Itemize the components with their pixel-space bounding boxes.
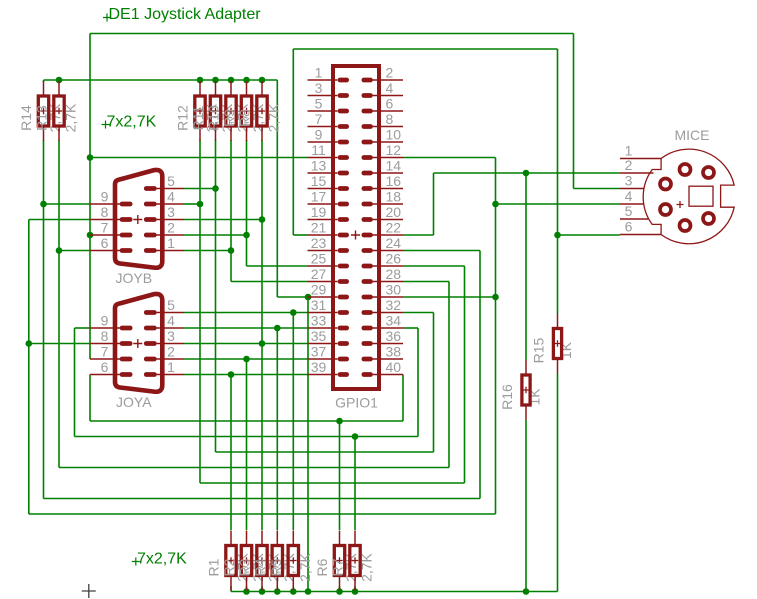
svg-text:R8: R8 xyxy=(237,109,253,127)
connector GPIO1 xyxy=(308,66,404,389)
junction JOYB4 xyxy=(197,201,204,208)
connector JOYA pin numbers left xyxy=(101,313,109,376)
svg-text:R9: R9 xyxy=(221,109,237,127)
junction rail R2 xyxy=(243,588,250,595)
junction R16 top xyxy=(523,170,530,177)
wire bus line 2 (GPIO34) xyxy=(75,436,419,438)
resistor R6 xyxy=(334,531,344,591)
wire GPIO21 stub xyxy=(293,234,307,236)
svg-text:2: 2 xyxy=(625,157,633,173)
svg-text:10: 10 xyxy=(386,127,402,143)
svg-text:JOYB: JOYB xyxy=(116,270,153,286)
wire R1 bottom lead xyxy=(230,586,232,592)
resistor R9 xyxy=(241,81,251,141)
wire column R9 lower xyxy=(215,140,217,452)
svg-text:4: 4 xyxy=(625,188,633,204)
svg-text:5: 5 xyxy=(625,203,633,219)
svg-text:32: 32 xyxy=(386,297,402,313)
svg-text:20: 20 xyxy=(386,204,402,220)
svg-text:2: 2 xyxy=(386,65,394,81)
svg-text:DE1 Joystick Adapter: DE1 Joystick Adapter xyxy=(109,6,262,23)
junction GPIO29 xyxy=(305,294,312,301)
junction R13 top xyxy=(56,77,63,84)
wire R4 bottom lead xyxy=(276,586,278,592)
svg-text:27: 27 xyxy=(311,266,327,282)
svg-text:2: 2 xyxy=(167,344,175,360)
svg-text:16: 16 xyxy=(386,173,402,189)
connector JOYA pin numbers right xyxy=(167,297,175,375)
wire JOYA1 to GPIO39 xyxy=(184,374,308,376)
resistor R5 xyxy=(288,531,298,591)
wire bus line 6 (GPIO24) xyxy=(44,498,481,500)
wire bus line 4 (GPIO28) xyxy=(59,467,449,469)
resistor R14 xyxy=(38,81,48,141)
resistor R11 xyxy=(210,81,220,141)
wire R5 bottom lead xyxy=(292,586,294,592)
resistor R3 xyxy=(257,531,267,591)
wire column x464 (GPIO26) xyxy=(464,266,466,483)
wire column x433 lower (GPIO32) xyxy=(433,313,435,453)
svg-text:24: 24 xyxy=(386,235,402,251)
svg-text:3: 3 xyxy=(625,173,633,189)
wire column R15 upper xyxy=(557,49,559,314)
connector JOYB xyxy=(90,170,184,268)
wire JOYA3 to GPIO35 xyxy=(184,343,308,345)
wire GPIO34 row xyxy=(403,327,418,329)
junction rail R3 xyxy=(259,588,266,595)
svg-text:5: 5 xyxy=(167,297,175,313)
svg-text:R10: R10 xyxy=(206,105,222,131)
wire R3 bottom lead xyxy=(261,586,263,592)
wire pull-up top rail xyxy=(44,79,278,81)
svg-text:R4: R4 xyxy=(252,558,268,576)
svg-text:4: 4 xyxy=(167,313,175,329)
junction JOYA5/GPIO31 xyxy=(290,309,297,316)
svg-text:11: 11 xyxy=(311,142,326,158)
resistor R2 xyxy=(241,531,251,591)
wire GPIO22 to MICE2 xyxy=(434,172,621,174)
junction rail R4 xyxy=(274,588,281,595)
svg-text:3: 3 xyxy=(167,328,175,344)
svg-text:8: 8 xyxy=(101,328,109,344)
wire GPIO22 stub xyxy=(403,234,434,236)
svg-text:7x2,7K: 7x2,7K xyxy=(107,114,157,131)
wire MICE3 stub xyxy=(574,188,621,190)
resistor R4 xyxy=(272,531,282,591)
wire bus line 7 (GPIO12/30) xyxy=(29,513,496,515)
svg-text:19: 19 xyxy=(311,204,327,220)
wire column x433 upper (GPIO22) xyxy=(433,173,435,235)
connector JOYB pin numbers right xyxy=(167,173,175,251)
wire column R13 lower xyxy=(58,140,60,468)
wire column R2 top lead xyxy=(246,359,248,530)
wire column x403 (GPIO40) xyxy=(402,375,404,422)
wire column x293 upper xyxy=(292,49,294,235)
wire GPIO24 row xyxy=(403,250,480,252)
wire JOYA8 row xyxy=(29,343,90,345)
svg-text:9: 9 xyxy=(101,313,109,329)
resistor R13 xyxy=(54,81,64,141)
junction MICE6 xyxy=(554,232,561,239)
wire left column x90 lower xyxy=(89,375,91,422)
wire JOYB4 stub xyxy=(184,203,200,205)
wire column x573 (MICE3) xyxy=(573,34,575,189)
svg-text:2: 2 xyxy=(167,220,175,236)
junction R7 bus2 xyxy=(352,433,359,440)
svg-text:6: 6 xyxy=(625,219,633,235)
junction GPIO30 xyxy=(492,294,499,301)
junction JOYB9 xyxy=(40,201,47,208)
wire bottom common rail xyxy=(231,591,558,593)
svg-text:22: 22 xyxy=(386,220,402,236)
resistor R7 xyxy=(350,531,360,591)
connector MICE xyxy=(620,149,734,244)
wire GPIO32 row xyxy=(403,312,434,314)
wire GPIO29 jog xyxy=(277,296,308,298)
wire column R12 lower xyxy=(261,140,263,530)
resistor R15 xyxy=(553,314,561,374)
junction JOYB7 xyxy=(87,232,94,239)
svg-text:5: 5 xyxy=(167,173,175,189)
svg-text:R3: R3 xyxy=(237,558,253,576)
wire JOYA9 row xyxy=(75,327,91,329)
svg-text:6: 6 xyxy=(101,235,109,251)
svg-text:35: 35 xyxy=(311,328,327,344)
junction JOYB1 xyxy=(228,247,235,254)
svg-text:38: 38 xyxy=(386,344,402,360)
svg-text:14: 14 xyxy=(386,158,402,174)
wire column x495 (GPIO12/30) xyxy=(495,158,497,515)
junction JOYA3/GPIO35 xyxy=(259,340,266,347)
svg-text:5: 5 xyxy=(315,96,323,112)
wire left column x90 upper xyxy=(89,34,91,360)
svg-text:R6: R6 xyxy=(314,558,330,576)
svg-text:36: 36 xyxy=(386,328,402,344)
svg-text:R16: R16 xyxy=(499,384,515,410)
wire left column x74.5 xyxy=(74,328,76,437)
svg-text:40: 40 xyxy=(386,359,402,375)
svg-text:4: 4 xyxy=(167,189,175,205)
junction rail R6 xyxy=(336,588,343,595)
wire MICE4 stub xyxy=(496,203,621,205)
connector GPIO1 pin numbers right xyxy=(386,65,402,376)
svg-text:28: 28 xyxy=(386,266,402,282)
svg-text:13: 13 xyxy=(311,158,327,174)
wire JOYA4 to GPIO33 xyxy=(184,327,308,329)
junction JOYB5 xyxy=(212,185,219,192)
resistor R8 xyxy=(257,81,267,141)
junction R6 bus1 xyxy=(336,418,343,425)
wire JOYB5 stub xyxy=(184,188,216,190)
wire column R14 lower xyxy=(43,140,45,499)
wire column R8 lower xyxy=(199,140,201,483)
svg-text:15: 15 xyxy=(311,173,327,189)
connector JOYA xyxy=(90,294,184,392)
svg-text:9: 9 xyxy=(315,127,323,143)
junction x90 GPIO11 xyxy=(87,154,94,161)
wire column R11 lower xyxy=(246,140,248,266)
junction JOYA8 xyxy=(26,340,33,347)
wire left column x28.8 xyxy=(28,220,30,515)
connector GPIO1 pin numbers left xyxy=(311,65,327,376)
svg-text:7: 7 xyxy=(101,220,109,236)
wire column R10 lower xyxy=(230,140,232,282)
wire top rail net MICE3/GPIO11 xyxy=(90,33,574,35)
wire column x480 (GPIO24) xyxy=(479,251,481,499)
svg-text:MICE: MICE xyxy=(675,127,710,143)
svg-text:3: 3 xyxy=(167,204,175,220)
junction R11 top xyxy=(243,77,250,84)
svg-text:GPIO1: GPIO1 xyxy=(335,395,378,411)
svg-text:31: 31 xyxy=(311,297,327,313)
svg-text:39: 39 xyxy=(311,359,327,375)
wire JOYB2 row xyxy=(184,234,247,236)
wire bus line 3 (GPIO32) xyxy=(216,451,434,453)
resistor R1 xyxy=(226,531,236,591)
wire GPIO12 row xyxy=(403,157,496,159)
annotation 7x2,7K (bottom resistor group) xyxy=(132,551,187,568)
svg-text:9: 9 xyxy=(101,189,109,205)
svg-text:3: 3 xyxy=(315,80,323,96)
wire GPIO25 row xyxy=(247,265,308,267)
wire column R5 top lead xyxy=(292,313,294,531)
svg-text:33: 33 xyxy=(311,313,327,329)
svg-text:7: 7 xyxy=(101,344,109,360)
svg-text:R11: R11 xyxy=(190,105,206,130)
wire column R14 upper stub xyxy=(43,80,45,82)
wire column R6 top lead xyxy=(339,421,341,530)
junction JOYA2/GPIO37 xyxy=(243,356,250,363)
schematic title text xyxy=(103,6,261,23)
wire bus line 5 (GPIO26) xyxy=(200,482,465,484)
svg-text:R1: R1 xyxy=(206,558,222,576)
svg-text:R13: R13 xyxy=(34,105,50,131)
junction R9 top xyxy=(212,77,219,84)
wire column R1 top lead xyxy=(230,375,232,531)
svg-text:12: 12 xyxy=(386,142,402,158)
wire column R15 lower xyxy=(557,374,559,592)
wire rail net GPIO21/MICE6 xyxy=(293,48,557,50)
svg-text:7: 7 xyxy=(315,111,323,127)
svg-text:R14: R14 xyxy=(18,105,34,131)
svg-text:R5: R5 xyxy=(268,558,284,576)
svg-text:8: 8 xyxy=(101,204,109,220)
wire JOYB3 row xyxy=(184,219,262,221)
connector MICE pin numbers xyxy=(625,143,633,235)
connector JOYB pin numbers left xyxy=(101,189,109,252)
wire column R16 upper xyxy=(525,173,527,360)
wire column R4 top lead xyxy=(276,328,278,530)
sheet origin cross xyxy=(82,584,96,598)
svg-text:1: 1 xyxy=(167,359,175,375)
svg-text:34: 34 xyxy=(386,313,402,329)
wire JOYB9 row xyxy=(44,203,91,205)
resistor R10 xyxy=(226,81,236,141)
svg-text:4: 4 xyxy=(386,80,394,96)
svg-text:1: 1 xyxy=(315,65,323,81)
wire GPIO28 row xyxy=(403,281,449,283)
junction R10 top xyxy=(228,77,235,84)
svg-text:R12: R12 xyxy=(175,105,191,131)
svg-text:37: 37 xyxy=(311,344,327,360)
wire JOYA5 to GPIO31 xyxy=(184,312,308,314)
wire R2 bottom lead xyxy=(246,586,248,592)
junction R12 top xyxy=(259,77,266,84)
svg-text:1: 1 xyxy=(167,235,175,251)
junction rail R5 xyxy=(290,588,297,595)
wire R6 bottom lead xyxy=(339,586,341,592)
svg-text:17: 17 xyxy=(311,189,327,205)
svg-text:R2: R2 xyxy=(221,558,237,576)
svg-text:6: 6 xyxy=(386,96,394,112)
wire JOYB8 row xyxy=(29,219,90,221)
junction JOYB3 xyxy=(259,216,266,223)
svg-text:18: 18 xyxy=(386,189,402,205)
wire GPIO11 row xyxy=(90,157,308,159)
wire column R7 top lead xyxy=(354,437,356,531)
wire JOYA2 to GPIO37 xyxy=(184,358,308,360)
wire column x277 upper xyxy=(276,80,278,297)
svg-text:8: 8 xyxy=(386,111,394,127)
junction JOYB6 xyxy=(56,247,63,254)
svg-text:26: 26 xyxy=(386,251,402,267)
svg-text:6: 6 xyxy=(101,359,109,375)
wire GPIO26 row xyxy=(403,265,465,267)
svg-text:30: 30 xyxy=(386,282,402,298)
wire R7 bottom lead xyxy=(354,586,356,592)
svg-text:JOYA: JOYA xyxy=(116,394,152,410)
svg-text:7x2,7K: 7x2,7K xyxy=(137,551,187,568)
wire bus line 1 (GPIO40) xyxy=(90,420,403,422)
svg-text:23: 23 xyxy=(311,235,327,251)
svg-text:21: 21 xyxy=(311,220,327,236)
junction JOYA1/GPIO39 xyxy=(228,371,235,378)
svg-text:R15: R15 xyxy=(531,337,547,363)
resistor R16 xyxy=(522,360,530,420)
junction R8 top xyxy=(197,77,204,84)
wire JOYB1 row xyxy=(184,250,231,252)
wire GPIO30 row xyxy=(403,296,496,298)
wire MICE6 stub xyxy=(558,234,621,236)
junction rail x308 xyxy=(305,588,312,595)
junction GPIO12/MICE4 xyxy=(492,201,499,208)
wire column x308 (GPIO29) xyxy=(307,297,309,592)
svg-text:25: 25 xyxy=(311,251,327,267)
wire column x418 (GPIO34) xyxy=(417,328,419,437)
junction JOYA4/GPIO33 xyxy=(274,325,281,332)
wire column R16 lower xyxy=(525,420,527,592)
svg-text:R7: R7 xyxy=(330,558,346,576)
junction JOYB2 xyxy=(243,232,250,239)
resistor R12 xyxy=(195,81,205,141)
junction rail R7 xyxy=(352,588,359,595)
wire JOYB6 row xyxy=(59,250,90,252)
svg-text:29: 29 xyxy=(311,282,327,298)
wire GPIO27 row xyxy=(231,281,308,283)
junction rail R16 xyxy=(523,588,530,595)
wire column x449 (GPIO28) xyxy=(448,282,450,468)
annotation 7x2,7K (top resistor group) xyxy=(102,114,157,131)
